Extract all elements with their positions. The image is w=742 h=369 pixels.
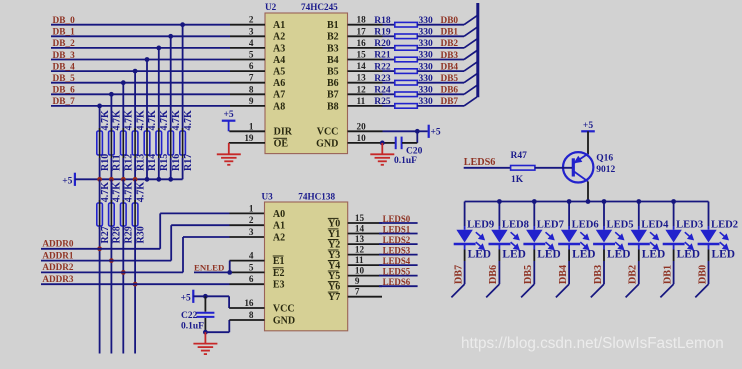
svg-text:R47: R47 (511, 151, 528, 161)
wire bus entry DB2 (464, 39, 477, 48)
resistor R12 pin through body (122, 128, 124, 158)
wire branch LED6 anode (568, 202, 570, 227)
U3 pin 16 VCC (230, 307, 265, 309)
svg-text:R15: R15 (159, 154, 170, 171)
svg-text:LEDS3: LEDS3 (383, 245, 411, 255)
svg-text:12: 12 (355, 245, 365, 255)
svg-text:B2: B2 (327, 32, 339, 43)
resistor R12 body (121, 131, 127, 155)
U2 pin 13 (B6) (348, 82, 383, 84)
svg-text:R11: R11 (112, 154, 123, 171)
svg-text:R23: R23 (374, 74, 391, 84)
svg-text:17: 17 (357, 26, 367, 36)
svg-text:R14: R14 (147, 154, 158, 171)
wire to resistor R23 (383, 82, 395, 84)
svg-text:6: 6 (249, 61, 254, 71)
svg-text:14: 14 (355, 224, 365, 234)
wire resistor to bus entry DB2 (417, 47, 464, 49)
wire DB_5 drop to resistor R12 (122, 83, 124, 131)
svg-text:R12: R12 (124, 154, 135, 171)
capacitor C22 plates (196, 312, 214, 314)
svg-text:12: 12 (357, 84, 367, 94)
svg-text:LED: LED (502, 249, 525, 261)
svg-text:7: 7 (355, 287, 360, 297)
LED2 light arrows (720, 232, 728, 249)
U2 pin 8 (230, 93, 265, 95)
wire R16 bottom to +5 rail (170, 158, 172, 179)
junction +5 rail col 6 (168, 177, 173, 182)
wire branch LED5 anode (603, 202, 605, 227)
U2 pin 18 (B1) (348, 24, 383, 26)
junction DB_3 to pull-up column (145, 57, 150, 62)
svg-text:Y4: Y4 (328, 261, 340, 272)
resistor R47 body (511, 166, 535, 171)
resistor R11 pin through body (110, 128, 112, 158)
wire LED5 cathode (603, 244, 605, 250)
resistor R27 body (97, 203, 103, 226)
wire bus entry DB0 (464, 16, 477, 25)
svg-text:A3: A3 (273, 43, 285, 54)
svg-text:DB4: DB4 (558, 265, 569, 284)
wire ADDR3 net (41, 283, 230, 285)
power +5 above Q16 (581, 130, 595, 132)
U3 pin 7 (Y7) (348, 296, 382, 298)
junction DB_1 to pull-up column (168, 34, 173, 39)
svg-text:2: 2 (249, 215, 254, 225)
wire LED4 cathode (638, 244, 640, 250)
wire bus entry DB1 (660, 284, 673, 297)
resistor R25 body (395, 104, 418, 109)
U3 pin 10 (Y5) (348, 275, 382, 277)
U3 pin 6 (230, 283, 265, 285)
wire ADDR0 riser (159, 213, 161, 248)
LED8 diode symbol (491, 230, 507, 243)
wire branch LED2 anode (708, 202, 710, 227)
junction DB_5 to pull-up column (121, 80, 126, 85)
wire LEDS3 net (379, 254, 418, 256)
wire LED8 cathode (498, 244, 500, 250)
junction rail branch 6 (671, 199, 676, 204)
wire DB_0 drop to resistor R17 (182, 25, 184, 131)
wire ADDR1 riser (170, 225, 172, 260)
wire LED7 cathode (533, 244, 535, 250)
resistor R16 pin through body (170, 128, 172, 158)
svg-text:1: 1 (249, 121, 254, 131)
LED7 light arrows (546, 232, 554, 249)
svg-text:LEDS2: LEDS2 (383, 235, 411, 245)
node GND junction at C20 (380, 141, 385, 146)
resistor R18 body (395, 22, 418, 27)
resistor R15 body (156, 131, 162, 155)
U2 pin 20 VCC (348, 130, 383, 132)
svg-text:C20: C20 (406, 146, 423, 156)
svg-text:A2: A2 (273, 32, 285, 43)
node ENLED junction (227, 270, 232, 275)
junction DB_4 to pull-up column (133, 69, 138, 74)
U3 pin 5 E2 (230, 271, 265, 273)
resistor R13 pin through body (134, 128, 136, 158)
resistor R24 body (395, 92, 418, 97)
svg-text:DB1: DB1 (441, 28, 459, 38)
svg-text:R22: R22 (374, 62, 391, 72)
wire to resistor R18 (383, 24, 395, 26)
svg-text:10: 10 (355, 266, 365, 276)
resistor R28 body (109, 203, 115, 226)
U2 pin 5 (230, 59, 265, 61)
svg-text:DB_7: DB_7 (53, 97, 76, 107)
ground at U2 pin10/C20 (370, 143, 394, 165)
wire DB_6 drop to resistor R11 (110, 94, 112, 131)
svg-text:+5: +5 (583, 121, 593, 131)
svg-text:DB7: DB7 (441, 97, 459, 107)
svg-text:DB5: DB5 (441, 74, 459, 84)
node C22 top junction (203, 294, 208, 299)
svg-text:B1: B1 (327, 20, 339, 31)
svg-text:Y6: Y6 (328, 282, 340, 293)
svg-text:A1: A1 (273, 20, 285, 31)
ground below C22 (193, 332, 217, 354)
U3 pin 3 (230, 236, 265, 238)
svg-text:DB_0: DB_0 (53, 16, 76, 26)
junction +5 rail col 2 (red) (121, 177, 126, 182)
wire +5 to Q16 emitter (587, 131, 589, 154)
svg-text:ADDR0: ADDR0 (42, 239, 74, 249)
wire R12 bottom to +5 rail (122, 158, 124, 179)
svg-text:ENLED: ENLED (194, 263, 224, 273)
wire DB_4 drop to resistor R13 (134, 71, 136, 131)
svg-text:ADDR2: ADDR2 (42, 262, 74, 272)
LED8 light arrows (511, 232, 519, 249)
svg-text:LED2: LED2 (711, 220, 738, 231)
svg-text:DB0: DB0 (441, 16, 459, 26)
node VCC junction (415, 129, 420, 134)
wire to resistor R24 (383, 93, 395, 95)
svg-text:4: 4 (249, 251, 254, 261)
svg-text:A4: A4 (273, 55, 285, 66)
U2 pin 11 (B8) (348, 105, 383, 107)
resistor R28 pin through body (110, 200, 112, 229)
junction rail branch 2 (532, 199, 537, 204)
capacitor C22 pin top (204, 296, 206, 311)
svg-text:LEDS5: LEDS5 (383, 266, 411, 276)
wire VCC down to C20 (416, 131, 418, 143)
wire VCC to +5 (417, 130, 427, 132)
svg-text:4.7K: 4.7K (124, 182, 135, 203)
junction DB_6 to pull-up column (109, 92, 114, 97)
wire bus entry DB7 (464, 97, 477, 106)
svg-text:R27: R27 (100, 226, 111, 243)
wire DB_7 drop to resistor R10 (99, 106, 101, 131)
LED5 diode symbol (596, 230, 612, 243)
wire +5 to VCC pin 16 (193, 295, 229, 297)
svg-text:R30: R30 (135, 226, 146, 243)
svg-text:R19: R19 (374, 28, 391, 38)
svg-text:1K: 1K (511, 175, 524, 185)
junction DB_0 to pull-up column (180, 22, 185, 27)
U2 pin 6 (230, 70, 265, 72)
wire branch LED7 anode (533, 202, 535, 227)
svg-text:GND: GND (273, 315, 295, 326)
svg-text:A8: A8 (273, 101, 285, 112)
svg-text:DB5: DB5 (523, 265, 534, 284)
svg-text:DB_2: DB_2 (53, 39, 76, 49)
wire branch LED3 anode (673, 202, 675, 227)
wire DB_0 net (51, 24, 230, 26)
wire DB_7 net (51, 105, 230, 107)
U2 pin 14 (B5) (348, 70, 383, 72)
svg-text:13: 13 (357, 73, 367, 83)
svg-text:DB_5: DB_5 (53, 74, 76, 84)
wire LEDS6 net to R47 (464, 167, 511, 169)
resistor R11 body (109, 131, 115, 155)
svg-text:4.7K: 4.7K (124, 110, 135, 131)
svg-text:Y7: Y7 (328, 292, 340, 303)
wire rail down to R29 (122, 179, 124, 203)
svg-text:DB2: DB2 (441, 39, 459, 49)
svg-text:Y5: Y5 (328, 271, 340, 282)
wire bus entry DB6 (464, 85, 477, 94)
U3 pin 4 E1 (230, 260, 265, 262)
svg-text:LED3: LED3 (676, 220, 703, 231)
wire resistor to bus entry DB4 (417, 70, 464, 72)
svg-text:Q16: Q16 (596, 153, 613, 163)
svg-text:LED: LED (712, 249, 735, 261)
svg-text:15: 15 (357, 50, 367, 60)
svg-text:DB2: DB2 (628, 265, 639, 284)
svg-text:LED: LED (537, 249, 560, 261)
wire LED2 cathode (708, 244, 710, 250)
wire rail down to R30 (134, 179, 136, 203)
junction rail branch 3 (567, 199, 572, 204)
junction +5 rail col 1 (red) (109, 177, 114, 182)
svg-text:VCC: VCC (317, 127, 339, 138)
svg-text:20: 20 (357, 121, 367, 131)
svg-text:R13: R13 (135, 154, 146, 171)
svg-text:DB7: DB7 (453, 265, 464, 284)
U2 pin 1 DIR (229, 130, 265, 132)
svg-text:74HC138: 74HC138 (298, 192, 335, 202)
capacitor C20 pin left (382, 142, 395, 144)
svg-text:9: 9 (249, 96, 254, 106)
U3 pin 14 (Y1) (348, 233, 382, 235)
svg-text:R18: R18 (374, 16, 391, 26)
svg-text:C22: C22 (181, 311, 198, 321)
svg-text:19: 19 (244, 133, 254, 143)
svg-text:B3: B3 (327, 43, 339, 54)
U3 pin 9 (Y6) (348, 285, 382, 287)
svg-text:U2: U2 (265, 2, 277, 12)
U3 pin 11 (Y4) (348, 264, 382, 266)
svg-text:4.7K: 4.7K (147, 110, 158, 131)
svg-text:DB3: DB3 (593, 265, 604, 284)
svg-text:9: 9 (355, 276, 360, 286)
svg-text:6: 6 (249, 274, 254, 284)
svg-text:15: 15 (355, 213, 365, 223)
wire resistor to bus entry DB5 (417, 82, 464, 84)
svg-text:+5: +5 (431, 127, 441, 137)
U2 pin 15 (B4) (348, 59, 383, 61)
svg-text:11: 11 (357, 96, 366, 106)
resistor R14 pin through body (146, 128, 148, 158)
wire branch LED4 anode (638, 202, 640, 227)
Q16 emitter arrow (PNP) (575, 157, 582, 163)
svg-text:LED7: LED7 (537, 220, 565, 231)
wire LED supply rail (465, 201, 709, 203)
svg-text:18: 18 (357, 15, 367, 25)
wire R14 bottom to +5 rail (146, 158, 148, 179)
LED6 diode symbol (561, 230, 577, 243)
wire LED6 cathode (568, 244, 570, 250)
svg-text:R10: R10 (100, 154, 111, 171)
svg-text:LED: LED (468, 249, 491, 261)
svg-text:4.7K: 4.7K (171, 110, 182, 131)
resistor R23 body (395, 80, 418, 85)
LED2 diode symbol (700, 230, 716, 243)
resistor R21 body (395, 57, 418, 62)
resistor R30 body (132, 203, 138, 226)
wire ADDR2 riser (182, 237, 184, 272)
junction Q16 collector at rail (586, 199, 591, 204)
wire resistor to bus entry DB6 (417, 93, 464, 95)
wire LEDS1 net (379, 233, 418, 235)
svg-text:E1: E1 (273, 256, 285, 267)
svg-text:DB6: DB6 (441, 86, 459, 96)
wire LEDS6 net (379, 285, 418, 287)
svg-text:16: 16 (244, 298, 254, 308)
svg-text:DB_6: DB_6 (53, 86, 76, 96)
U2 pin 4 (230, 47, 265, 49)
svg-text:VCC: VCC (273, 303, 295, 314)
junction ADDR1 (red) (109, 258, 114, 263)
wire ADDR1 to U3 pin 2 (171, 224, 229, 226)
svg-text:4.7K: 4.7K (135, 110, 146, 131)
svg-text:+5: +5 (62, 176, 72, 186)
wire to resistor R21 (383, 59, 395, 61)
wire R28 down to bottom edge (110, 226, 112, 354)
svg-text:0.1uF: 0.1uF (181, 322, 204, 332)
U3 pin 8 GND (230, 319, 265, 321)
svg-text:1: 1 (249, 203, 254, 213)
wire bus entry DB5 (464, 74, 477, 83)
svg-text:+5: +5 (181, 293, 191, 303)
resistor R22 body (395, 69, 418, 74)
wire DB_2 drop to resistor R15 (158, 48, 160, 131)
LED4 diode symbol (631, 230, 647, 243)
svg-text:A7: A7 (273, 90, 285, 101)
svg-text:DB_4: DB_4 (53, 62, 76, 72)
wire branch LED9 anode (464, 202, 466, 227)
svg-text:LED: LED (642, 249, 665, 261)
svg-text:R25: R25 (374, 97, 391, 107)
U2 pin 9 (230, 105, 265, 107)
wire branch LED8 anode (498, 202, 500, 227)
resistor R27 pin through body (99, 200, 101, 229)
svg-text:4.7K: 4.7K (100, 110, 111, 131)
svg-text:DIR: DIR (274, 127, 293, 138)
junction DB_7 to pull-up column (97, 104, 102, 109)
svg-text:B8: B8 (327, 101, 339, 112)
resistor R19 body (395, 34, 418, 39)
capacitor C20 pin right (402, 142, 417, 144)
resistor R17 body (180, 131, 186, 155)
wire DB_3 drop to resistor R14 (146, 60, 148, 132)
svg-text:DB3: DB3 (441, 51, 459, 61)
wire bus entry DB7 (451, 284, 464, 297)
wire ADDR0 net (41, 248, 160, 250)
wire to resistor R25 (383, 105, 395, 107)
svg-text:LED8: LED8 (502, 220, 529, 231)
svg-text:4.7K: 4.7K (112, 110, 123, 131)
junction rail branch 4 (602, 199, 607, 204)
svg-text:LEDS6: LEDS6 (383, 277, 411, 287)
svg-text:9012: 9012 (596, 165, 615, 175)
junction rail branch 1 (497, 199, 502, 204)
svg-text:3: 3 (249, 26, 254, 36)
svg-text:DB_1: DB_1 (53, 28, 76, 38)
wire bus entry DB1 (464, 27, 477, 36)
wire resistor to bus entry DB3 (417, 59, 464, 61)
wire R15 bottom to +5 rail (158, 158, 160, 179)
wire ADDR2 to U3 pin 3 (183, 236, 230, 238)
junction +5 rail col 0 (red) (97, 177, 102, 182)
svg-text:LED6: LED6 (572, 220, 599, 231)
wire R11 bottom to +5 rail (110, 158, 112, 179)
svg-text:4.7K: 4.7K (159, 110, 170, 131)
wire LEDS4 net (379, 264, 418, 266)
wire DB_6 net (51, 93, 230, 95)
U3 pin 12 (Y3) (348, 254, 382, 256)
svg-text:A5: A5 (273, 67, 285, 78)
svg-text:DB6: DB6 (488, 265, 499, 284)
svg-text:LED4: LED4 (641, 220, 669, 231)
svg-text:74HC245: 74HC245 (301, 2, 338, 12)
svg-text:4: 4 (249, 38, 254, 48)
wire LEDS5 net (379, 275, 418, 277)
svg-text:8: 8 (249, 310, 254, 320)
U3 pin 13 (Y2) (348, 243, 382, 245)
wire bus entry DB4 (464, 62, 477, 71)
resistor R29 body (121, 203, 127, 226)
U2 pin 17 (B2) (348, 35, 383, 37)
svg-text:A1: A1 (273, 221, 285, 232)
wire E1 to ENLED junction (229, 260, 231, 262)
svg-text:3: 3 (249, 227, 254, 237)
wire DB_2 net (51, 47, 230, 49)
wire +5 to DIR (228, 121, 230, 132)
node C22 bottom junction (203, 330, 208, 335)
svg-text:5: 5 (249, 262, 254, 272)
LED3 diode symbol (665, 230, 681, 243)
wire rail down to R28 (110, 179, 112, 203)
svg-text:Y3: Y3 (328, 250, 340, 261)
resistor R10 body (97, 131, 103, 155)
svg-text:https://blog.csdn.net/SlowIsFa: https://blog.csdn.net/SlowIsFastLemon (461, 335, 724, 352)
junction +5 rail col 4 (145, 177, 150, 182)
svg-text:U3: U3 (262, 192, 274, 202)
U2 pin 10 GND (348, 142, 383, 144)
svg-text:E3: E3 (273, 280, 285, 291)
svg-text:A2: A2 (273, 232, 285, 243)
svg-text:R21: R21 (374, 51, 391, 61)
wire bus entry DB3 (464, 51, 477, 60)
wire bus entry DB5 (521, 284, 534, 297)
wire resistor to bus entry DB7 (417, 105, 464, 107)
resistor R17 pin through body (182, 128, 184, 158)
LED4 light arrows (650, 232, 658, 249)
wire ADDR1 net (41, 260, 171, 262)
LED7 diode symbol (526, 230, 542, 243)
wire LEDS2 net (379, 243, 418, 245)
